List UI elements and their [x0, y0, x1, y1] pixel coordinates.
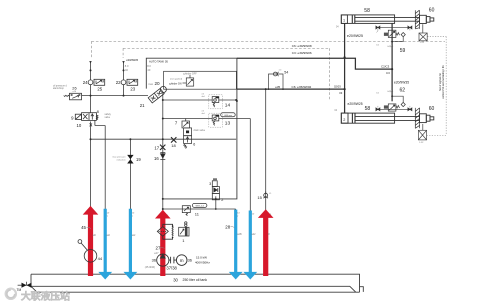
- svg-text:b2: b2: [377, 45, 380, 47]
- svg-text:rel: rel: [279, 68, 282, 71]
- svg-text:1-5X: 1-5X: [419, 142, 424, 144]
- svg-text:36: 36: [152, 258, 156, 263]
- svg-text:max pressure: max pressure: [112, 156, 126, 159]
- svg-text:def: def: [202, 113, 205, 115]
- svg-text:40: 40: [147, 68, 150, 72]
- svg-text:03: 03: [339, 91, 342, 95]
- svg-text:21: 21: [140, 103, 145, 108]
- svg-text:T: T: [132, 216, 134, 218]
- svg-text:b2: b2: [377, 92, 380, 94]
- svg-text:7: 7: [175, 121, 178, 126]
- svg-text:37/38: 37/38: [166, 266, 177, 271]
- svg-text:C3: e30/9W06: C3: e30/9W06: [292, 51, 312, 55]
- svg-text:18: 18: [171, 143, 176, 148]
- svg-text:14: 14: [225, 102, 231, 108]
- svg-text:40: 40: [125, 68, 128, 72]
- svg-text:e35: e35: [275, 85, 280, 89]
- svg-text:28: 28: [225, 224, 230, 229]
- svg-text:at2: at2: [132, 234, 136, 237]
- svg-text:22: 22: [116, 80, 121, 85]
- svg-text:58: 58: [364, 8, 370, 14]
- svg-text:60: 60: [429, 7, 435, 13]
- svg-text:04|M1: 04|M1: [387, 91, 394, 93]
- svg-text:14': 14': [132, 213, 135, 215]
- svg-text:a22: a22: [252, 233, 257, 236]
- svg-text:1: 1: [182, 238, 185, 243]
- svg-text:14': 14': [107, 213, 110, 215]
- svg-text:24: 24: [83, 80, 88, 85]
- svg-text:30: 30: [173, 277, 178, 282]
- svg-text:10: 10: [77, 123, 82, 128]
- svg-text:e26: e26: [73, 91, 77, 93]
- svg-text:T: T: [107, 216, 109, 218]
- svg-text:m: m: [180, 258, 184, 263]
- svg-text:reduction: reduction: [117, 158, 127, 161]
- svg-text:e20/9W35: e20/9W35: [394, 81, 409, 85]
- svg-text:11: 11: [195, 211, 200, 216]
- svg-text:C6: e35/9W02: C6: e35/9W02: [292, 85, 312, 89]
- svg-text:AUTO TANK 05: AUTO TANK 05: [149, 59, 168, 63]
- svg-text:14': 14': [252, 214, 255, 216]
- svg-text:16: 16: [154, 156, 159, 161]
- svg-text:R: R: [268, 232, 270, 236]
- svg-text:23: 23: [130, 87, 135, 92]
- svg-text:(not applied): (not applied): [170, 77, 182, 80]
- svg-text:17: 17: [154, 146, 159, 151]
- svg-text:L1: L1: [269, 193, 272, 195]
- svg-text:control t 5K and monitoring t: control t 5K and monitoring t 6K: [442, 65, 445, 99]
- svg-text:13: 13: [225, 120, 231, 126]
- svg-text:a: a: [167, 215, 169, 217]
- svg-text:e27: e27: [154, 252, 159, 255]
- svg-text:C6: e30/9W08: C6: e30/9W08: [292, 44, 312, 48]
- svg-text:02/03: 02/03: [334, 85, 341, 89]
- svg-text:C3: C3: [386, 71, 390, 75]
- svg-text:60: 60: [429, 106, 435, 112]
- svg-text:04: 04: [335, 110, 338, 112]
- svg-text:25: 25: [97, 87, 102, 92]
- svg-text:cylinder ON: cylinder ON: [169, 82, 182, 85]
- svg-text:at2: at2: [107, 234, 111, 237]
- svg-text:250 liter oil tank: 250 liter oil tank: [183, 278, 208, 282]
- svg-text:2: 2: [221, 198, 223, 202]
- svg-text:62: 62: [400, 88, 406, 94]
- svg-text:400V/50Hz: 400V/50Hz: [195, 261, 210, 265]
- svg-text:e30/9W05: e30/9W05: [126, 58, 138, 62]
- svg-text:2: 2: [343, 118, 345, 122]
- svg-text:e20/9W25: e20/9W25: [348, 102, 363, 106]
- svg-text:max: max: [148, 83, 153, 86]
- svg-text:8.0: 8.0: [125, 64, 129, 68]
- svg-text:04: 04: [336, 27, 339, 29]
- svg-text:(45.0kW): (45.0kW): [145, 266, 155, 269]
- svg-text:cylinder OFF: cylinder OFF: [183, 73, 197, 76]
- svg-text:T: T: [237, 216, 239, 218]
- svg-text:20: 20: [155, 81, 161, 86]
- svg-text:04|M1: 04|M1: [387, 46, 394, 48]
- svg-text:alarm/stop: alarm/stop: [53, 87, 64, 90]
- svg-text:15: 15: [257, 195, 262, 200]
- svg-text:27: 27: [156, 245, 161, 250]
- svg-text:3: 3: [209, 182, 211, 186]
- svg-text:def: def: [202, 96, 205, 98]
- svg-text:45: 45: [81, 225, 86, 230]
- svg-text:15.0 kW: 15.0 kW: [196, 255, 207, 259]
- svg-text:a2B: a2B: [237, 233, 242, 236]
- svg-text:GB 1-14: GB 1-14: [196, 205, 205, 207]
- svg-text:59: 59: [400, 48, 406, 54]
- svg-text:600 rev: 600 rev: [225, 114, 233, 117]
- svg-text:8.0: 8.0: [147, 64, 151, 68]
- svg-text:valve: valve: [105, 116, 111, 119]
- svg-text:19: 19: [136, 157, 141, 162]
- svg-text:TM: TM: [17, 288, 22, 292]
- svg-text:drain valve: drain valve: [194, 129, 206, 132]
- svg-text:oil pressure d: oil pressure d: [53, 84, 68, 87]
- svg-text:6: 6: [193, 143, 195, 147]
- svg-text:8: 8: [97, 109, 100, 114]
- svg-text:9: 9: [71, 115, 74, 120]
- svg-text:1: 1: [343, 19, 345, 23]
- svg-text:at0: at0: [93, 234, 97, 237]
- svg-text:e20/9W25: e20/9W25: [347, 34, 363, 38]
- svg-text:14': 14': [237, 213, 240, 215]
- svg-text:44: 44: [98, 256, 103, 261]
- svg-text:36: 36: [188, 258, 192, 263]
- svg-text:C2/C3: C2/C3: [381, 64, 390, 68]
- svg-text:大联液压站: 大联液压站: [21, 289, 70, 302]
- svg-text:54: 54: [284, 71, 288, 75]
- svg-text:26: 26: [72, 85, 76, 90]
- svg-text:58: 58: [365, 106, 371, 112]
- svg-text:1-5X: 1-5X: [420, 42, 425, 44]
- svg-text:a: a: [270, 214, 272, 216]
